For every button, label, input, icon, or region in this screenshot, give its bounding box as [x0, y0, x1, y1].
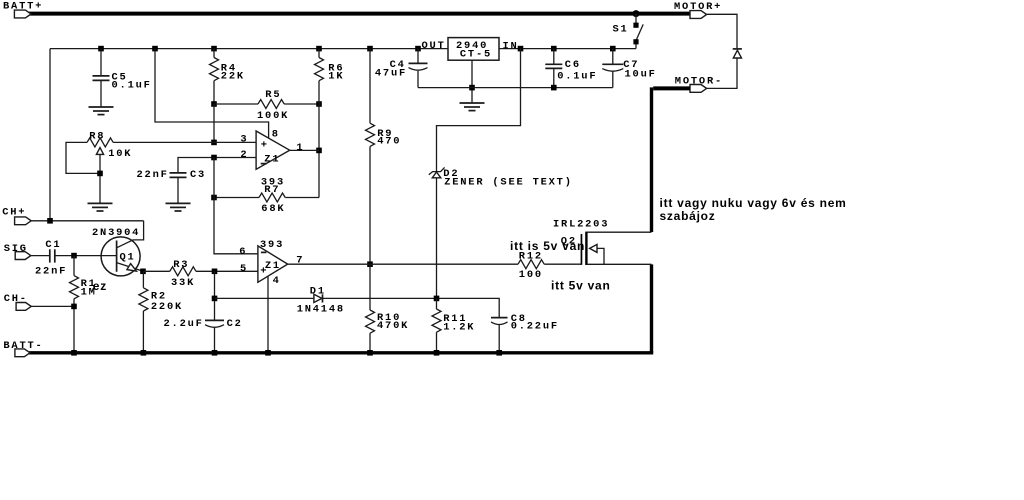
node: BATT- junction C8: [496, 350, 502, 356]
wire: pin2 node down to R7 and pin6: [214, 158, 258, 254]
wire: R4/R5 node down to pin3 line: [213, 104, 215, 142]
resistor R12 100: [518, 260, 544, 269]
svg-text:3: 3: [240, 134, 248, 146]
node: rail junction pin8 supply: [152, 46, 158, 52]
capacitor C5: [93, 49, 110, 107]
resistor R11 1.2K: [432, 298, 441, 352]
label - input: [261, 163, 267, 165]
transistor Q1 (base bar): [116, 241, 118, 272]
wire: pin8 supply from rail: [155, 49, 269, 139]
svg-text:1N4148: 1N4148: [297, 303, 345, 315]
diode D3 flyback (triangle): [733, 50, 741, 58]
node: rail junction R4: [211, 46, 217, 52]
op-amp U1B triangle: [258, 246, 288, 282]
svg-text:itt vagy nuku vagy 6v és nem: itt vagy nuku vagy 6v és nem: [660, 196, 847, 210]
svg-text:22nF: 22nF: [35, 266, 67, 278]
connector SIG: [15, 252, 31, 260]
wire: R12 to gate: [544, 263, 581, 265]
svg-text:220K: 220K: [151, 301, 183, 313]
svg-text:Z1: Z1: [264, 154, 280, 166]
svg-text:C3: C3: [190, 169, 206, 181]
wire: thick MOTOR- to Q2 drain: [653, 86, 690, 90]
wire: CH+ line to Q1 collector: [31, 220, 143, 222]
wire: pin4 to BATT-: [267, 277, 269, 353]
capacitor C4 (polarized): [409, 49, 428, 88]
node: rail junction R9: [367, 46, 373, 52]
svg-text:2: 2: [240, 149, 248, 161]
svg-text:R5: R5: [265, 89, 281, 101]
svg-text:ez: ez: [93, 279, 107, 293]
svg-text:IRL2203: IRL2203: [553, 219, 609, 231]
wire: flyback diode to MOTOR-: [707, 58, 737, 88]
diode D1 (triangle): [314, 294, 322, 302]
wire: CH- to R1: [31, 305, 74, 307]
wire: ground rail under regulator: [418, 87, 613, 89]
transistor Q1 (emitter with arrow): [117, 263, 143, 272]
node: R11 junction: [434, 296, 440, 302]
wire: drain lead: [586, 231, 651, 233]
connector BATT-: [15, 349, 30, 357]
svg-text:1K: 1K: [328, 71, 344, 83]
wire: D1 line from pin5 node: [215, 297, 314, 299]
node: BATT- junction R1: [71, 350, 77, 356]
node: rail junction C7: [610, 46, 616, 52]
wire: pin7 output to R12: [288, 263, 518, 265]
connector MOTOR-: [690, 85, 707, 93]
svg-text:Q1: Q1: [120, 252, 136, 264]
resistor R3 33K: [143, 267, 258, 276]
svg-text:itt is 5v van: itt is 5v van: [510, 239, 585, 253]
resistor R6 1K: [315, 49, 324, 104]
node: BATT- junction R11: [434, 350, 440, 356]
svg-text:R8: R8: [89, 130, 105, 142]
svg-text:0.22uF: 0.22uF: [511, 320, 559, 332]
node: R8 wiper junction: [97, 171, 103, 177]
svg-text:2.2uF: 2.2uF: [164, 318, 204, 330]
svg-text:47uF: 47uF: [375, 67, 407, 79]
svg-text:szabájoz: szabájoz: [660, 209, 716, 223]
capacitor C3: [170, 158, 257, 204]
svg-text:100K: 100K: [257, 110, 289, 122]
wire: D1 cathode to C8: [323, 298, 500, 317]
diode D2 zener (bent cathode bar): [429, 167, 445, 174]
capacitor C1: [31, 249, 117, 262]
svg-text:OUT: OUT: [422, 40, 446, 52]
node: rail junction IN column: [518, 46, 524, 52]
svg-text:6: 6: [239, 246, 247, 258]
node: regulator ground junction: [469, 85, 475, 91]
node: pin1 junction: [316, 148, 322, 154]
node: D1 line junction: [212, 296, 218, 302]
wire: pin3 line from R8 to op-amp: [113, 141, 256, 143]
wire: IN column down to zener loop: [437, 49, 521, 172]
wire: thick BATT- rail: [29, 351, 653, 354]
ground: R8: [88, 203, 113, 211]
svg-text:5: 5: [240, 263, 248, 275]
wire: pin1 column from R5 node down to R7 line: [318, 104, 320, 198]
switch S1: [633, 14, 643, 49]
svg-text:10uF: 10uF: [625, 68, 657, 80]
node: rail junction R6: [316, 46, 322, 52]
node: pin2 junction: [211, 155, 217, 161]
svg-text:1.2K: 1.2K: [443, 322, 475, 334]
node: R7 left junction: [211, 195, 217, 201]
node: rail junction C4: [415, 46, 421, 52]
svg-text:470: 470: [377, 136, 401, 148]
wire: MOTOR+ to flyback diode: [707, 14, 737, 48]
capacitor C7 (polarized): [602, 49, 623, 88]
ground: C5: [89, 107, 114, 115]
svg-text:0.1uF: 0.1uF: [557, 71, 597, 83]
transistor Q2 (body diode arrow): [590, 244, 597, 252]
capacitor C2 (polarized): [205, 320, 224, 352]
transistor Q1 (circle): [101, 237, 140, 276]
wire: pin1 output: [290, 149, 319, 151]
wire: source lead: [586, 263, 651, 265]
wire: thick Q2 source to BATT- rail: [650, 264, 653, 353]
wire: 5V rail left section: [50, 48, 448, 50]
node: comparator output junction: [367, 261, 373, 267]
svg-text:22nF: 22nF: [137, 169, 169, 181]
transistor Q2 (channel bar): [585, 232, 587, 265]
svg-text:CT-5: CT-5: [460, 49, 492, 61]
node: BATT- junction C2: [212, 350, 218, 356]
svg-text:+: +: [260, 266, 266, 278]
ground: C3: [166, 203, 191, 211]
transistor Q2 (gate bar): [581, 234, 583, 265]
node: Q1 emitter junction: [140, 269, 146, 275]
node: rail junction C6: [551, 46, 557, 52]
node: pin3 junction: [211, 140, 217, 146]
diode D2 zener (triangle): [432, 172, 441, 178]
connector MOTOR+: [690, 11, 707, 19]
node: BATT- junction R10: [367, 350, 373, 356]
wire: body arrow tail to source: [597, 248, 604, 264]
ground: regulator: [460, 103, 485, 111]
connector CH+: [15, 217, 32, 225]
connector CH-: [16, 303, 31, 311]
resistor R1 1M: [70, 256, 79, 353]
node: R5/R6/pin1 column junction: [316, 101, 322, 107]
node: R4/R5 junction: [211, 101, 217, 107]
svg-text:1: 1: [296, 142, 304, 154]
node: BATT- junction pin4: [265, 350, 271, 356]
svg-text:C1: C1: [45, 239, 61, 251]
svg-text:393: 393: [260, 239, 284, 251]
resistor R5 100K: [214, 100, 319, 109]
svg-text:0.1uF: 0.1uF: [112, 80, 152, 92]
svg-text:ZENER (SEE TEXT): ZENER (SEE TEXT): [444, 177, 573, 189]
wire: left edge down to CH+ line: [49, 49, 51, 221]
svg-text:IN: IN: [503, 40, 519, 52]
node: S1 tap on BATT+ rail: [633, 10, 640, 17]
node: CH- junction: [71, 304, 77, 310]
wire: regulator ground pin: [471, 60, 473, 103]
svg-text:22K: 22K: [221, 71, 245, 83]
node: pin5 junction: [212, 269, 218, 275]
svg-text:itt 5v van: itt 5v van: [551, 279, 611, 293]
svg-text:4: 4: [273, 275, 281, 287]
svg-text:R3: R3: [173, 259, 189, 271]
svg-text:470K: 470K: [377, 320, 409, 332]
regulator U2 2940 CT-5 box: [448, 38, 499, 61]
node: Q1 base junction: [71, 253, 77, 259]
transistor Q1 (collector): [117, 221, 144, 248]
svg-text:68K: 68K: [261, 203, 285, 215]
svg-text:D1: D1: [310, 285, 326, 297]
resistor R10 470K: [366, 264, 375, 353]
capacitor C8 (polarized): [491, 318, 508, 353]
wire: thick BATT+ to MOTOR+ rail: [29, 12, 690, 16]
wire: zener to D1/R11 node: [436, 178, 438, 299]
node: ground rail junction C6: [551, 85, 557, 91]
svg-text:S1: S1: [613, 24, 629, 36]
diode D3 flyback (cathode bar): [733, 48, 742, 50]
svg-text:+: +: [261, 140, 267, 152]
node: CH+ / 5V junction: [47, 218, 53, 224]
svg-text:10K: 10K: [108, 148, 132, 160]
svg-text:C6: C6: [565, 59, 581, 71]
svg-text:100: 100: [519, 269, 543, 281]
resistor R9 470: [366, 49, 375, 265]
node: BATT- junction R2: [141, 350, 147, 356]
wire: pin5 node down to C2: [214, 271, 216, 320]
label - input: [261, 251, 267, 253]
op-amp U1A triangle: [256, 131, 290, 169]
wire: battery rail right section (IN side): [499, 48, 636, 50]
svg-text:C2: C2: [227, 318, 243, 330]
svg-text:Z1: Z1: [265, 260, 281, 272]
resistor R8 10K trimmer: [66, 138, 113, 204]
resistor R2 220K: [139, 271, 148, 353]
resistor R4 22K: [210, 49, 219, 104]
capacitor C6: [545, 49, 562, 88]
diode D1 (cathode bar): [322, 294, 324, 302]
node: rail junction C5: [98, 46, 104, 52]
resistor R7 68K: [214, 193, 319, 202]
connector BATT+: [14, 10, 31, 18]
svg-text:8: 8: [272, 129, 280, 141]
svg-text:33K: 33K: [171, 277, 195, 289]
svg-text:393: 393: [261, 176, 285, 188]
